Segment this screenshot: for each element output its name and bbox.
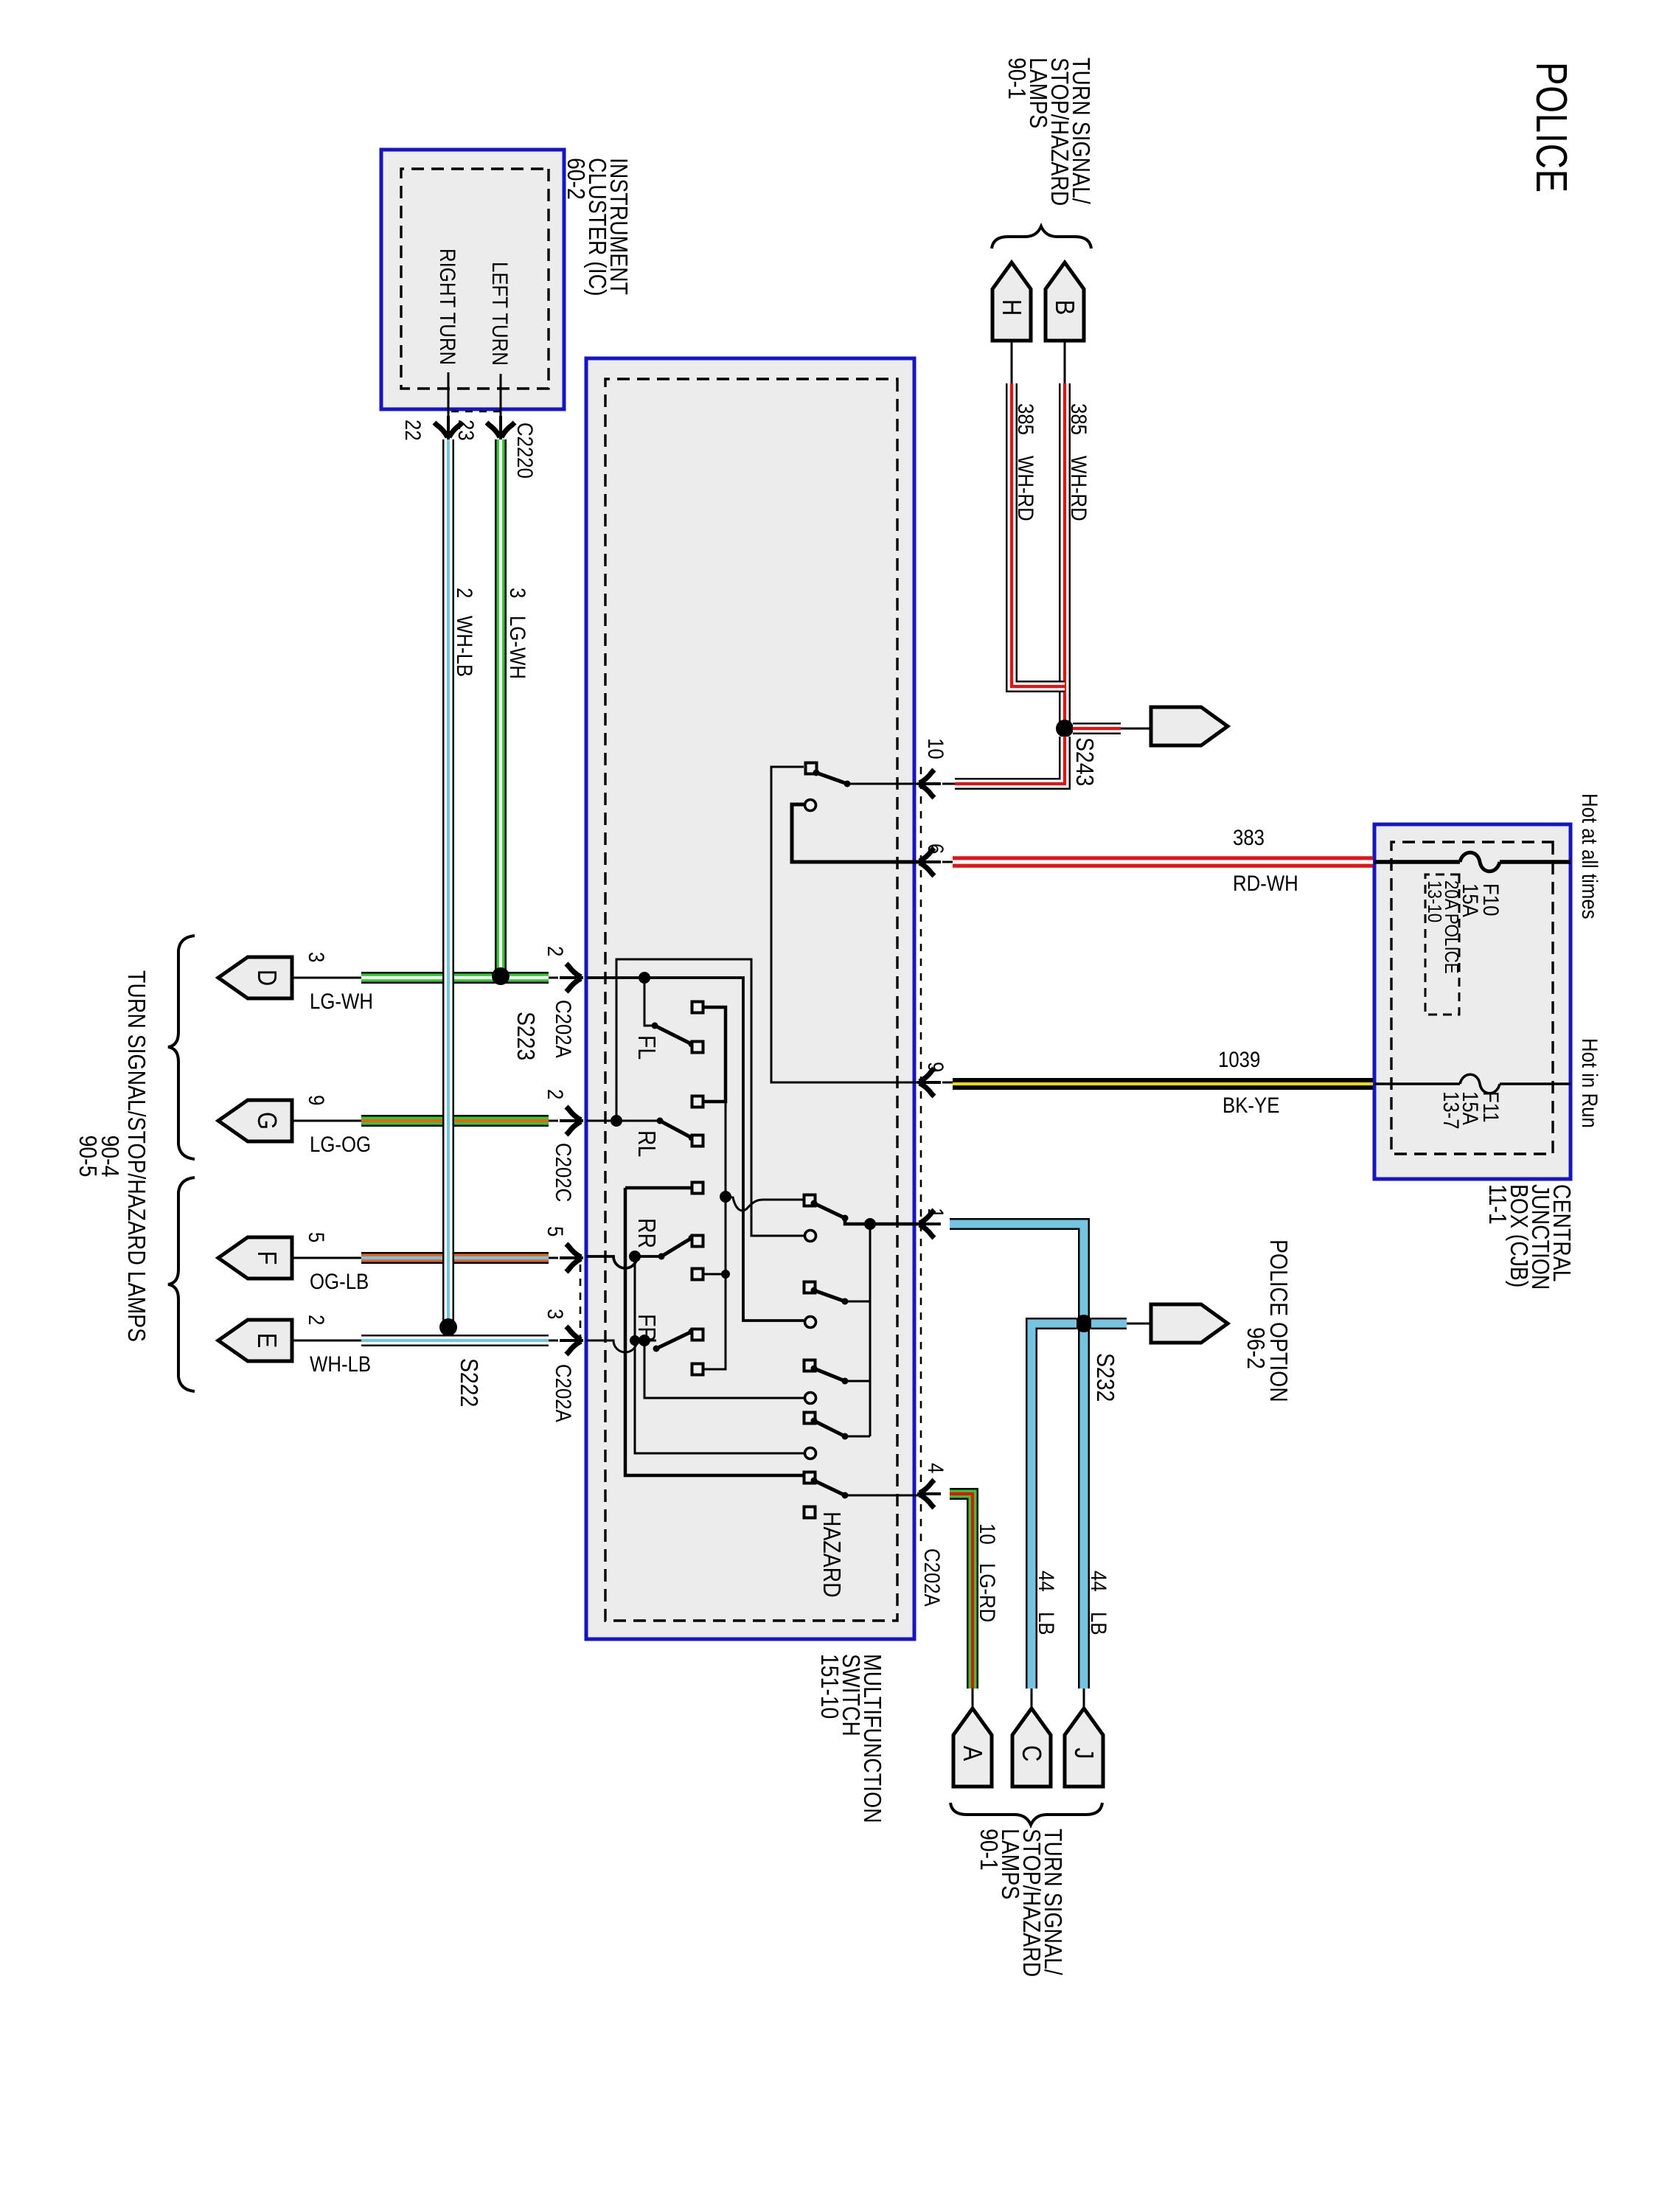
G pin interior and RL blade <box>586 959 816 1242</box>
splice S243 <box>1056 720 1099 786</box>
svg-text:WH-RD: WH-RD <box>1067 456 1091 521</box>
svg-text:B: B <box>1049 300 1079 316</box>
central junction box (CJB) <box>1374 824 1571 1179</box>
connector B <box>1046 262 1084 341</box>
wire 44 LB S232 to connector C <box>1032 1324 1077 1710</box>
svg-text:151-10: 151-10 <box>815 1654 844 1719</box>
label POLICE OPTION 96-2 (lower) <box>1242 1239 1293 1402</box>
svg-text:RR: RR <box>633 1218 661 1248</box>
svg-text:60-2: 60-2 <box>562 158 590 200</box>
svg-text:1039: 1039 <box>1218 1047 1260 1071</box>
pin 5 arrow (F) <box>543 1226 583 1272</box>
svg-text:H: H <box>996 299 1026 316</box>
svg-text:13-7: 13-7 <box>1439 1091 1464 1130</box>
connector A <box>953 1708 992 1787</box>
fuse F10 15A <box>1374 852 1571 917</box>
brace lamps 90-4 <box>168 936 195 1159</box>
svg-text:LG-RD: LG-RD <box>975 1563 1000 1622</box>
label TURN SIGNAL/STOP/HAZARD LAMPS 90-1 (right) <box>975 1829 1067 1977</box>
svg-text:F: F <box>251 1251 281 1265</box>
svg-text:OG-LB: OG-LB <box>310 1269 369 1293</box>
brace right lamps <box>950 1803 1102 1825</box>
brace lamps 90-5 <box>168 1178 195 1391</box>
svg-text:WH-LB: WH-LB <box>310 1352 371 1376</box>
wire 385 WH-RD from B <box>1065 341 1091 728</box>
V3 line F/E to circle contact <box>630 1256 816 1459</box>
svg-text:10: 10 <box>975 1523 1000 1545</box>
label TURN SIGNAL/STOP/HAZARD LAMPS 90-1 (left) <box>1003 58 1095 206</box>
svg-text:90-1: 90-1 <box>975 1829 1003 1871</box>
wire WH-RD S243 to police option <box>1073 723 1151 734</box>
pin 9 arrow <box>917 1062 953 1096</box>
pin 6 arrow <box>917 844 953 876</box>
switch section labels FL RL RR FR <box>633 1035 661 1342</box>
svg-text:Hot in Run: Hot in Run <box>1578 1038 1602 1128</box>
contact row outputs <box>625 1002 730 1375</box>
svg-text:96-2: 96-2 <box>1242 1327 1270 1369</box>
svg-text:RIGHT TURN: RIGHT TURN <box>436 248 460 365</box>
svg-text:S222: S222 <box>455 1358 483 1407</box>
svg-text:3: 3 <box>543 1309 568 1319</box>
pin 4 feed blade <box>804 1472 919 1499</box>
police option connector (S243) <box>1151 707 1228 745</box>
pin 2 arrow (D) <box>543 946 583 1058</box>
svg-text:5: 5 <box>543 1226 568 1237</box>
svg-text:LG-WH: LG-WH <box>506 616 530 679</box>
svg-text:385: 385 <box>1014 403 1038 435</box>
label MULTIFUNCTION SWITCH 151-10 <box>815 1654 886 1823</box>
brace left lamps <box>992 226 1091 248</box>
wire WH-RD S243 to pin 10 <box>942 737 1065 784</box>
svg-text:TURN SIGNAL/STOP/HAZARD LAMPS: TURN SIGNAL/STOP/HAZARD LAMPS <box>122 970 150 1342</box>
splice S223 <box>492 967 540 1060</box>
svg-text:C2220: C2220 <box>513 422 538 479</box>
svg-text:9: 9 <box>305 1095 329 1105</box>
svg-text:13-10: 13-10 <box>1424 880 1445 922</box>
svg-text:383: 383 <box>1233 825 1265 849</box>
E pin interior and FR blade <box>586 1329 703 1353</box>
svg-text:9: 9 <box>924 1062 948 1072</box>
svg-text:385: 385 <box>1067 403 1091 435</box>
wire LB S232 to police option <box>1091 1318 1151 1329</box>
svg-text:22: 22 <box>401 420 425 441</box>
svg-text:LG-WH: LG-WH <box>310 989 373 1013</box>
V1 line T5 to pin4 blade contact <box>625 1188 804 1475</box>
label CENTRAL JUNCTION BOX (CJB) 11-1 <box>1484 1184 1576 1290</box>
svg-text:4: 4 <box>924 1463 948 1473</box>
pin 1 arrow <box>917 1208 948 1238</box>
wire 44 LB pin 1 to connector J <box>950 1224 1111 1710</box>
connector C <box>1012 1708 1051 1787</box>
svg-text:C202A: C202A <box>920 1548 945 1607</box>
wire 3 LG-WH (IC left turn) <box>501 439 530 976</box>
police option connector (S232) <box>1151 1304 1228 1343</box>
splice S232 <box>1075 1315 1119 1402</box>
svg-text:2: 2 <box>305 1315 329 1325</box>
pin 1 blade and contact <box>804 1195 919 1225</box>
svg-text:S232: S232 <box>1091 1353 1119 1402</box>
svg-text:23: 23 <box>454 420 479 441</box>
svg-text:WH-LB: WH-LB <box>453 616 477 677</box>
svg-text:E: E <box>251 1333 281 1349</box>
wire 10 LG-RD pin 4 to connector A <box>950 1494 1000 1710</box>
hazard feed switch (pins 9/10/6) <box>771 763 919 1083</box>
connector H <box>992 262 1031 341</box>
svg-text:6: 6 <box>924 844 948 854</box>
svg-text:POLICE OPTION: POLICE OPTION <box>1265 1239 1293 1402</box>
wire 3 LG-WH to connector D <box>218 952 583 1013</box>
svg-text:C: C <box>1016 1745 1046 1761</box>
svg-text:LB: LB <box>1087 1612 1111 1635</box>
label POLICE OPTION 96-2 (upper) <box>1658 0 1659 1</box>
svg-text:Hot at all times: Hot at all times <box>1578 793 1602 919</box>
splice S222 <box>439 1318 483 1407</box>
pin 4 arrow <box>917 1463 948 1607</box>
svg-text:FL: FL <box>633 1035 661 1060</box>
svg-text:LB: LB <box>1034 1612 1059 1635</box>
svg-text:44: 44 <box>1034 1571 1059 1592</box>
svg-text:J: J <box>1068 1747 1098 1759</box>
svg-text:3: 3 <box>305 952 329 962</box>
svg-text:2: 2 <box>453 588 477 598</box>
pin 10 arrow <box>917 738 948 798</box>
label TURN SIGNAL/STOP/HAZARD LAMPS 90-4 90-5 <box>74 970 150 1342</box>
svg-text:LEFT TURN: LEFT TURN <box>488 262 512 366</box>
svg-text:G: G <box>251 1112 281 1130</box>
svg-text:90-1: 90-1 <box>1003 58 1031 100</box>
connector J <box>1065 1708 1103 1787</box>
pin 23 arrow <box>454 374 515 441</box>
dashed box 20A POLICE 13-10 <box>1424 874 1462 1015</box>
svg-text:S223: S223 <box>512 1012 540 1060</box>
svg-text:HAZARD: HAZARD <box>818 1512 846 1598</box>
connector dashed line C202 top <box>920 767 922 1548</box>
wire 1039 BK-YE <box>953 1047 1373 1117</box>
blade contacts mid (to V6) <box>804 1282 849 1440</box>
svg-text:10: 10 <box>924 738 948 759</box>
svg-text:90-5: 90-5 <box>74 1135 102 1178</box>
V6 bus line <box>846 1218 876 1436</box>
svg-text:11-1: 11-1 <box>1484 1184 1512 1225</box>
svg-text:2: 2 <box>543 1089 568 1099</box>
hazard spare contact <box>804 1507 846 1598</box>
wire 9 LG-OG to connector G <box>218 1095 583 1156</box>
wire 2 WH-LB (IC right turn) <box>448 439 477 1327</box>
svg-text:1: 1 <box>924 1208 948 1218</box>
wire 385 WH-RD from H <box>1012 341 1065 686</box>
fuse F11 15A <box>1374 1074 1571 1129</box>
svg-text:BK-YE: BK-YE <box>1222 1093 1279 1117</box>
instrument cluster box <box>381 150 564 409</box>
svg-text:3: 3 <box>506 588 530 598</box>
wiggle crossover to pin1 blade <box>720 1191 804 1211</box>
svg-text:44: 44 <box>1087 1571 1111 1592</box>
svg-text:C202C: C202C <box>552 1143 576 1202</box>
svg-text:S243: S243 <box>1071 737 1099 786</box>
E branch to circle contact <box>644 1340 816 1404</box>
svg-text:RL: RL <box>633 1130 661 1157</box>
svg-text:A: A <box>957 1746 987 1761</box>
multifunction switch box <box>586 358 914 1639</box>
pin 3 arrow (E) <box>543 1309 583 1422</box>
pin 2 arrow (G) <box>543 1089 583 1202</box>
pin 22 arrow <box>401 372 538 479</box>
svg-text:LG-OG: LG-OG <box>310 1132 371 1156</box>
label INSTRUMENT CLUSTER (IC) 60-2 <box>562 158 633 296</box>
svg-text:RD-WH: RD-WH <box>1233 871 1298 895</box>
svg-text:5: 5 <box>305 1232 329 1242</box>
wire 383 RD-WH <box>953 825 1373 895</box>
svg-text:C202A: C202A <box>552 1000 576 1058</box>
svg-text:2: 2 <box>543 946 568 956</box>
wire 5 OG-LB to connector F <box>218 1232 583 1293</box>
svg-text:WH-RD: WH-RD <box>1014 456 1038 521</box>
connector dashed line C202A bottom <box>580 1265 582 1337</box>
wire 2 WH-LB to connector E <box>218 1315 583 1376</box>
svg-text:POLICE: POLICE <box>1527 62 1575 193</box>
connector C2220 dashes <box>448 411 501 413</box>
F pin interior and RR blade <box>586 1235 695 1269</box>
D pin interior and FL blade <box>586 972 816 1328</box>
svg-text:C202A: C202A <box>552 1364 576 1422</box>
svg-text:D: D <box>251 970 281 986</box>
